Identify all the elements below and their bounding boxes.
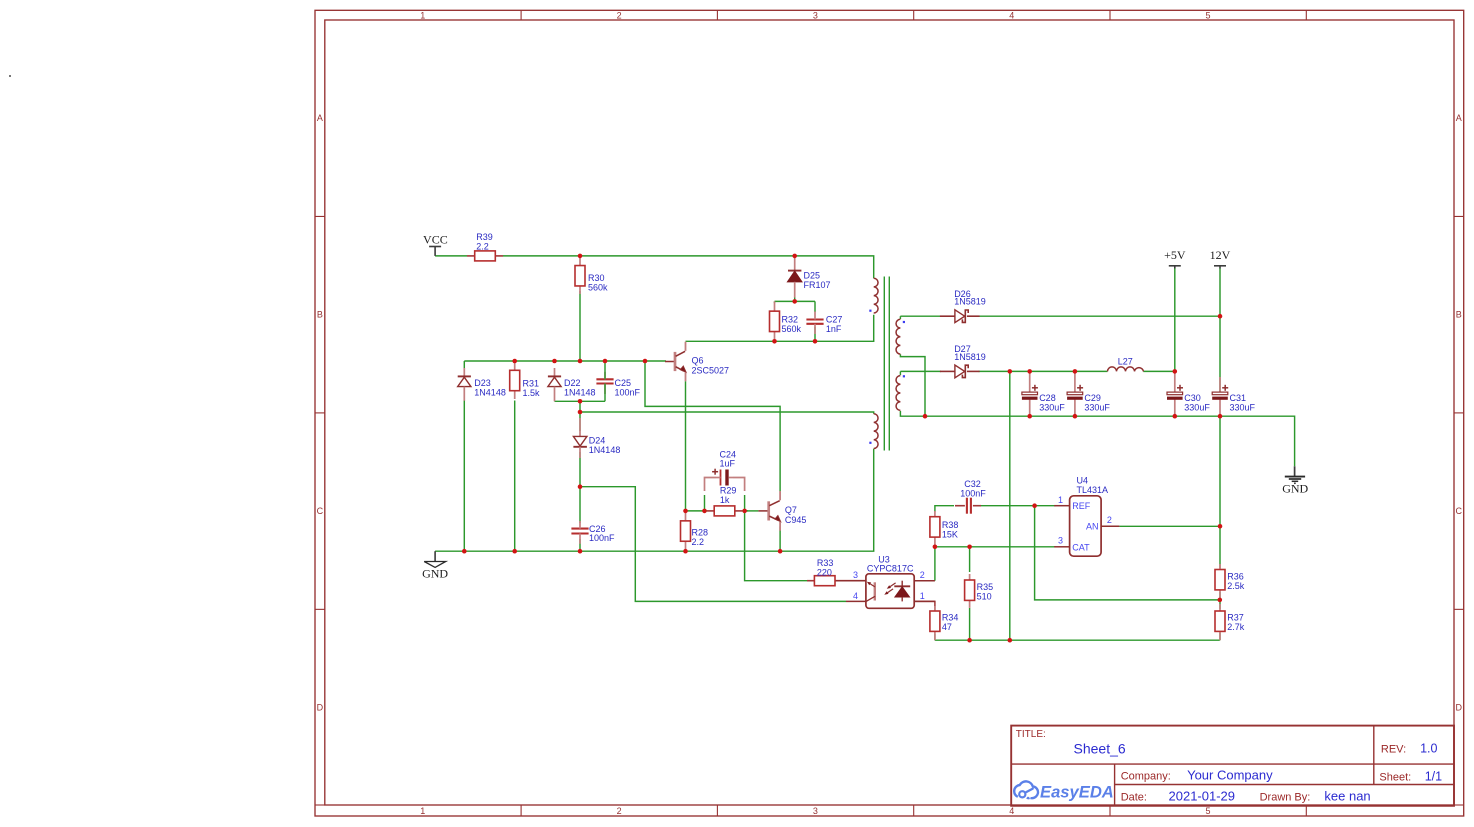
svg-text:kee nan: kee nan xyxy=(1324,788,1370,803)
wire D24 anode xyxy=(579,412,581,431)
wire R37 top xyxy=(1219,600,1221,609)
wire opto pin1 to R34 xyxy=(914,601,935,610)
svg-text:Your Company: Your Company xyxy=(1187,767,1273,782)
svg-text:Sheet:: Sheet: xyxy=(1379,771,1411,783)
junction D23 ground xyxy=(462,549,467,554)
wire VCC to R39 xyxy=(435,255,467,257)
svg-text:1.5k: 1.5k xyxy=(523,388,541,398)
transformer primary-1 arcs xyxy=(874,278,878,313)
junction R35 top xyxy=(967,545,972,550)
svg-text:15K: 15K xyxy=(942,530,958,540)
wire R38 top to C32 xyxy=(935,506,954,512)
junction AN node xyxy=(1218,524,1223,529)
capacitor C29 330uF (electrolytic) xyxy=(1074,373,1076,392)
svg-text:3: 3 xyxy=(1058,535,1063,545)
U3 light arrows xyxy=(890,583,895,587)
title block outline xyxy=(1011,726,1454,806)
svg-text:L27: L27 xyxy=(1118,357,1133,367)
wire primary ground rail xyxy=(435,449,874,552)
wire C24 right to node xyxy=(744,495,746,511)
wire secondary-1 top stub xyxy=(899,316,901,319)
wire C27 bottom stub xyxy=(814,327,816,341)
junction C28 bottom xyxy=(1027,414,1032,419)
svg-text:B: B xyxy=(317,310,323,320)
svg-text:510: 510 xyxy=(977,592,992,602)
wire CAT row xyxy=(935,546,1056,548)
svg-text:100nF: 100nF xyxy=(615,387,641,397)
capacitor C28 330uF (electrolytic) xyxy=(1029,373,1031,392)
svg-text:1N4148: 1N4148 xyxy=(589,445,621,455)
svg-text:B: B xyxy=(1456,310,1462,320)
junction R30 bottom xyxy=(578,359,583,364)
resistor R35 xyxy=(969,574,971,580)
wire 12V to AN row / R36 xyxy=(1219,416,1221,526)
svg-text:3: 3 xyxy=(813,10,818,20)
wire D23 top xyxy=(463,361,465,368)
wire C24 right hook xyxy=(733,478,745,492)
transformer secondary-2 arcs xyxy=(896,376,900,411)
polarity dot primary-1 xyxy=(869,310,871,312)
svg-text:Company:: Company: xyxy=(1121,770,1171,782)
svg-text:R32: R32 xyxy=(782,315,799,325)
EasyEDA logo cloud xyxy=(1014,781,1038,798)
svg-text:TL431A: TL431A xyxy=(1077,485,1109,495)
sheet border frame xyxy=(315,10,1464,816)
junction Q6 base tee xyxy=(643,359,648,364)
ground symbol GND (right) xyxy=(1294,466,1296,476)
EasyEDA logo cloud tick xyxy=(1026,789,1033,793)
svg-text:C: C xyxy=(1456,506,1463,516)
svg-text:3: 3 xyxy=(813,806,818,816)
resistor R31 xyxy=(514,362,516,370)
wire opto pin2 up xyxy=(934,548,936,581)
wire R36 bottom xyxy=(1219,592,1221,600)
wire secondary-1 return xyxy=(900,354,925,416)
junction C29 bottom xyxy=(1073,414,1078,419)
svg-text:R36: R36 xyxy=(1227,571,1244,581)
junction R30 top xyxy=(578,254,583,259)
svg-text:1N4148: 1N4148 xyxy=(564,387,596,397)
wire secondary ground rail xyxy=(900,411,1294,466)
svg-text:560k: 560k xyxy=(588,283,608,293)
transformer core xyxy=(883,277,885,451)
svg-text:12V: 12V xyxy=(1210,248,1231,262)
wire C24 left to node xyxy=(704,495,706,511)
wire D27 to L27 xyxy=(979,370,1108,372)
junction 12V node xyxy=(1218,314,1223,319)
svg-text:1uF: 1uF xyxy=(720,459,736,469)
transistor Q6 2SC5027 xyxy=(665,361,675,363)
junction C26 ground xyxy=(578,549,583,554)
wire C24 left hook xyxy=(705,478,717,492)
wire snubber rail to Q6 base xyxy=(464,360,666,362)
svg-text:1: 1 xyxy=(420,806,425,816)
wire C32 to REF xyxy=(979,505,1056,507)
svg-text:1/1: 1/1 xyxy=(1425,769,1442,783)
transformer secondary-1 arcs xyxy=(896,319,900,354)
wire R32 top stub xyxy=(774,301,776,303)
EasyEDA logo cloud circle xyxy=(1019,791,1025,797)
wire D23 to ground rail xyxy=(463,401,465,552)
svg-text:D23: D23 xyxy=(474,378,491,388)
wire Q6 base to Q7 collector xyxy=(645,361,780,491)
capacitor C25 xyxy=(596,378,613,380)
transformer primary-2 arcs xyxy=(874,414,878,449)
wire 12V to C31 xyxy=(1219,316,1221,393)
wire D22-C25 bottom row xyxy=(555,400,606,402)
wire D24 node to opto pin4 xyxy=(580,487,846,602)
junction R38 bottom / CAT node xyxy=(933,545,938,550)
diode D27 1N5819 xyxy=(940,370,955,372)
junction R28/R29 node xyxy=(683,509,688,514)
junction Q7 emitter ground xyxy=(778,549,783,554)
svg-text:R30: R30 xyxy=(588,273,605,283)
svg-text:2: 2 xyxy=(617,806,622,816)
svg-text:R34: R34 xyxy=(942,612,959,622)
resistor R33 xyxy=(807,580,814,582)
capacitor C31 330uF (electrolytic) xyxy=(1219,377,1221,392)
U3 phototransistor xyxy=(874,582,876,600)
junction D22 top xyxy=(552,359,557,364)
svg-text:100nF: 100nF xyxy=(960,488,986,498)
svg-text:1: 1 xyxy=(1058,495,1063,505)
svg-text:CAT: CAT xyxy=(1072,542,1090,552)
junction output ground top xyxy=(1008,369,1013,374)
junction D24 top node xyxy=(578,410,583,415)
wire C25 bottom lead xyxy=(604,384,606,402)
junction C28 top xyxy=(1027,369,1032,374)
junction D25 anode node xyxy=(792,299,797,304)
wire R30 to rail xyxy=(579,291,581,361)
junction output ground xyxy=(1008,638,1013,643)
svg-text:A: A xyxy=(317,113,323,123)
junction secondary return xyxy=(923,414,928,419)
wire REF node to R36/R37 divider xyxy=(1035,506,1220,600)
svg-text:D: D xyxy=(1456,703,1463,713)
wire node to primary-2 winding xyxy=(580,412,874,414)
power flag 12V xyxy=(1214,265,1226,267)
resistor R39 xyxy=(467,255,475,257)
resistor R29 xyxy=(707,510,714,512)
wire R32/C27 top row xyxy=(775,300,816,302)
svg-text:4: 4 xyxy=(853,591,858,601)
svg-text:GND: GND xyxy=(422,566,448,580)
diode D25 FR107 (filled) xyxy=(794,258,796,271)
shunt regulator U4 TL431A xyxy=(1070,496,1102,556)
capacitor C30 330uF (electrolytic) xyxy=(1174,373,1176,392)
diode D23 symbol xyxy=(458,375,471,377)
capacitor C32 100nF xyxy=(1055,505,1057,507)
frame bottom band connectors xyxy=(315,804,325,806)
svg-text:GND: GND xyxy=(1282,482,1308,496)
svg-text:4: 4 xyxy=(1009,10,1014,20)
ground symbol GND (left) xyxy=(434,551,436,561)
svg-text:Q6: Q6 xyxy=(692,356,704,366)
wire Q6 collector to primary-1 xyxy=(686,315,874,342)
diode D26 1N5819 xyxy=(940,315,955,317)
svg-text:330uF: 330uF xyxy=(1084,402,1110,412)
wire AN to divider xyxy=(1119,525,1220,527)
svg-text:330uF: 330uF xyxy=(1230,402,1256,412)
capacitor C26 xyxy=(571,528,588,530)
resistor R28 xyxy=(685,511,687,521)
svg-text:5: 5 xyxy=(1205,806,1210,816)
svg-text:VCC: VCC xyxy=(423,233,448,247)
wire +5V supply xyxy=(1174,269,1176,372)
svg-text:Date:: Date: xyxy=(1121,791,1147,803)
resistor R32 xyxy=(774,301,776,311)
svg-text:R28: R28 xyxy=(692,527,709,537)
svg-text:REF: REF xyxy=(1072,501,1091,511)
wire node to Q7 base xyxy=(745,510,759,512)
title block dividers xyxy=(1011,763,1454,765)
svg-text:Drawn By:: Drawn By: xyxy=(1260,791,1311,803)
svg-text:D: D xyxy=(317,703,324,713)
svg-text:Q7: Q7 xyxy=(785,505,797,515)
wire R29 to node xyxy=(742,510,748,512)
svg-text:1: 1 xyxy=(920,591,925,601)
power flag VCC xyxy=(429,246,441,248)
junction D24/C26 node xyxy=(578,484,583,489)
wire secondary-2 top stub xyxy=(899,371,901,375)
stray mark xyxy=(9,75,11,77)
junction C29 top xyxy=(1073,369,1078,374)
svg-text:2.7k: 2.7k xyxy=(1227,622,1245,632)
svg-text:AN: AN xyxy=(1086,522,1099,532)
svg-text:220: 220 xyxy=(817,568,832,578)
wire C25 top lead xyxy=(604,362,606,379)
svg-text:D25: D25 xyxy=(804,271,821,281)
svg-text:R38: R38 xyxy=(942,520,959,530)
junction C31 bottom xyxy=(1218,414,1223,419)
svg-text:D24: D24 xyxy=(589,436,606,446)
wire R35 top lead xyxy=(969,547,971,572)
junction R31 ground xyxy=(512,549,517,554)
resistor R36 xyxy=(1219,564,1221,570)
svg-text:1N5819: 1N5819 xyxy=(954,297,986,307)
wire D24 cathode to node xyxy=(579,452,581,487)
svg-text:2: 2 xyxy=(920,570,925,580)
wire Q7 base node to R33 xyxy=(745,511,808,581)
svg-text:47: 47 xyxy=(942,622,952,632)
diode D24 1N4148 (cathode down) xyxy=(579,418,581,436)
junction C25 top xyxy=(603,359,608,364)
svg-text:2SC5027: 2SC5027 xyxy=(692,366,730,376)
svg-text:3: 3 xyxy=(853,570,858,580)
capacitor C27 xyxy=(806,318,823,320)
polarity dot secondary-1 xyxy=(903,321,905,323)
resistor R34 xyxy=(934,606,936,611)
svg-text:330uF: 330uF xyxy=(1184,402,1210,412)
svg-text:+5V: +5V xyxy=(1164,248,1186,262)
svg-text:330uF: 330uF xyxy=(1039,402,1065,412)
junction R32 bottom xyxy=(772,339,777,344)
wire D26 to 12V node xyxy=(979,315,1221,317)
wire C26 top xyxy=(579,487,581,523)
wire 12V supply xyxy=(1219,269,1221,317)
junction R35 bottom xyxy=(967,638,972,643)
svg-text:C945: C945 xyxy=(785,515,807,525)
svg-text:2: 2 xyxy=(1107,515,1112,525)
wire secondary-1 to D26 xyxy=(900,315,941,317)
wire C27 top stub xyxy=(814,301,816,312)
wire to D24 row xyxy=(579,401,581,412)
svg-text:R37: R37 xyxy=(1227,612,1244,622)
wire secondary-2 to D27 xyxy=(900,370,941,372)
junction R31 top xyxy=(512,359,517,364)
wire R34 to bottom rail xyxy=(934,634,936,640)
svg-text:CYPC817C: CYPC817C xyxy=(867,564,914,574)
svg-text:C: C xyxy=(317,506,324,516)
svg-text:1: 1 xyxy=(420,10,425,20)
svg-text:FR107: FR107 xyxy=(804,280,831,290)
polarity dot secondary-2 xyxy=(903,375,905,377)
svg-text:TITLE:: TITLE: xyxy=(1016,729,1046,740)
optocoupler U3 CYPC817C xyxy=(866,574,914,609)
wire R35 to bottom rail xyxy=(969,608,971,640)
power flag +5V xyxy=(1169,265,1181,267)
svg-text:1.0: 1.0 xyxy=(1420,742,1437,756)
junction C30 bottom xyxy=(1173,414,1178,419)
wire Q6 emitter to R28/R29 node xyxy=(685,381,687,511)
svg-text:1k: 1k xyxy=(720,495,730,505)
svg-text:5: 5 xyxy=(1205,10,1210,20)
svg-text:100nF: 100nF xyxy=(589,533,615,543)
svg-text:560k: 560k xyxy=(782,324,802,334)
junction R28 ground xyxy=(683,549,688,554)
wire R37 bottom xyxy=(1219,633,1221,640)
wire L27 to +5V node xyxy=(1143,370,1175,372)
svg-text:4: 4 xyxy=(1009,806,1014,816)
wire feedback ground rail xyxy=(935,639,1220,641)
diode D22 symbol xyxy=(548,375,561,377)
wire to R36 xyxy=(1219,526,1221,568)
svg-text:D22: D22 xyxy=(564,378,581,388)
wire Q7 emitter to ground xyxy=(779,527,781,552)
resistor R38 xyxy=(934,511,936,517)
polarity dot primary-2 xyxy=(869,442,871,444)
junction D25 cathode xyxy=(792,254,797,259)
svg-text:2.5k: 2.5k xyxy=(1227,581,1245,591)
junction +5V node xyxy=(1173,369,1178,374)
wire output ground vertical xyxy=(1009,371,1011,640)
junction REF feedback node xyxy=(1032,503,1037,508)
svg-text:A: A xyxy=(1456,113,1462,123)
junction C24 right / Q7 base node xyxy=(742,509,747,514)
wire to R29 xyxy=(686,510,708,512)
svg-text:REV:: REV: xyxy=(1381,744,1406,756)
svg-text:2.2: 2.2 xyxy=(476,241,489,251)
transistor Q7 C945 xyxy=(758,510,768,512)
capacitor C24 1uF (polarized) xyxy=(712,471,718,473)
svg-text:1nF: 1nF xyxy=(826,324,842,334)
junction C24 left xyxy=(702,509,707,514)
svg-text:R31: R31 xyxy=(523,378,540,388)
junction R36/R37 node xyxy=(1218,598,1223,603)
svg-text:EasyEDA: EasyEDA xyxy=(1040,782,1114,801)
diode D23 1N4148 xyxy=(463,368,465,376)
svg-text:1N5819: 1N5819 xyxy=(954,352,986,362)
wire C26 to ground rail xyxy=(579,539,581,551)
svg-text:R35: R35 xyxy=(977,582,994,592)
svg-text:2.2: 2.2 xyxy=(692,537,705,547)
svg-text:Sheet_6: Sheet_6 xyxy=(1074,741,1126,757)
junction C27 bottom xyxy=(813,339,818,344)
svg-text:2021-01-29: 2021-01-29 xyxy=(1169,788,1236,803)
wire R31 to ground rail xyxy=(514,401,516,552)
svg-text:1N4148: 1N4148 xyxy=(474,387,506,397)
svg-text:2: 2 xyxy=(617,10,622,20)
wire D25 anode stub xyxy=(794,297,796,301)
resistor R30 xyxy=(579,258,581,266)
diode D22 1N4148 xyxy=(554,368,556,376)
inductor L27 xyxy=(1108,367,1144,372)
U3 LED xyxy=(901,581,903,587)
junction D22/C25 node xyxy=(578,399,583,404)
wire R39 to transformer primary, node VCC_SW xyxy=(503,256,874,278)
resistor R37 xyxy=(1219,604,1221,611)
